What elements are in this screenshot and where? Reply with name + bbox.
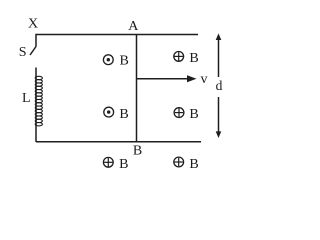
svg-text:B: B — [119, 157, 128, 172]
svg-text:B: B — [120, 54, 129, 69]
svg-text:A: A — [128, 19, 139, 34]
svg-text:v: v — [201, 72, 208, 87]
svg-text:B: B — [189, 107, 198, 122]
svg-text:S: S — [19, 45, 27, 60]
svg-text:B: B — [119, 107, 128, 122]
svg-text:B: B — [133, 143, 142, 158]
svg-text:L: L — [22, 91, 31, 106]
svg-text:B: B — [189, 51, 198, 66]
svg-text:X: X — [28, 16, 38, 31]
svg-text:B: B — [189, 157, 198, 172]
svg-text:d: d — [216, 78, 223, 93]
